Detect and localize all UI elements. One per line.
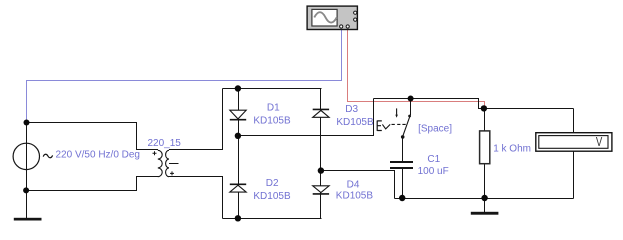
wire: bottom negative rail xyxy=(395,198,574,200)
wire: voltmeter top lead xyxy=(573,109,575,133)
diode D3 (pointing up) xyxy=(313,109,329,117)
AC source V1 220V 50Hz xyxy=(13,143,53,169)
svg-text:1 k Ohm: 1 k Ohm xyxy=(493,144,531,155)
svg-text:D3: D3 xyxy=(345,104,358,115)
wire: bridge right vertical branch xyxy=(320,89,322,219)
diode D2 (pointing up) xyxy=(230,184,246,192)
diode D1 (pointing down) xyxy=(230,110,246,120)
transformer T1 220_15 primary winding xyxy=(153,150,163,176)
wire: voltmeter bottom lead xyxy=(573,151,575,198)
node: bridge bottom-left junction xyxy=(235,215,241,221)
svg-text:C1: C1 xyxy=(427,154,440,165)
node: resistor top junction xyxy=(481,105,487,111)
svg-text:KD105B: KD105B xyxy=(253,191,291,202)
resistor R1 1 kOhm xyxy=(480,131,490,164)
node: bridge mid-right (negative output) junction xyxy=(318,167,324,173)
node: bridge mid-left (positive output) junction xyxy=(235,133,241,139)
wire: transformer secondary bottom to bridge bottom rail xyxy=(169,177,223,219)
wire: switch bottom to capacitor C1 xyxy=(402,138,404,161)
wire: transformer secondary top to bridge top rail xyxy=(169,89,223,150)
svg-text:D1: D1 xyxy=(267,102,280,113)
svg-text:[Space]: [Space] xyxy=(418,124,452,135)
transformer T1 secondary winding with center tap xyxy=(166,150,179,176)
svg-text:V: V xyxy=(596,136,603,150)
node: switch top rail junction xyxy=(408,96,414,102)
ground at load xyxy=(471,199,499,215)
wire: bridge top rail xyxy=(223,88,322,90)
wire: bridge bottom rail xyxy=(223,218,322,220)
wire: vertical through source xyxy=(26,123,28,191)
wire: blue oscilloscope channel A from scope to source top xyxy=(27,30,342,123)
wire: positive output from bridge midpoint to top rail xyxy=(239,99,374,136)
node: source top junction xyxy=(24,120,30,126)
wire: capacitor C1 bottom to ground rail xyxy=(402,168,404,198)
wire: negative output from bridge midpoint down to bottom rail xyxy=(321,171,395,199)
diode D4 (pointing down) xyxy=(313,186,329,194)
ground at source xyxy=(14,191,42,221)
wire: source top to transformer primary top xyxy=(27,123,158,150)
wire: bridge left vertical branch xyxy=(238,89,240,219)
voltmeter U1 xyxy=(536,133,612,152)
switch S1 (space key) xyxy=(377,108,411,138)
svg-text:KD105B: KD105B xyxy=(253,115,291,126)
capacitor C1 xyxy=(390,161,413,169)
wire: positive rail to resistor node xyxy=(374,99,574,109)
svg-text:100 uF: 100 uF xyxy=(418,166,449,177)
node: capacitor bottom rail junction xyxy=(399,195,405,201)
node: source bottom junction xyxy=(23,187,29,193)
svg-text:220 V/50 Hz/0 Deg: 220 V/50 Hz/0 Deg xyxy=(56,150,141,161)
wire: resistor top lead xyxy=(484,109,486,131)
wire: resistor bottom lead xyxy=(484,164,486,199)
wire: switch top stub xyxy=(410,99,412,116)
svg-text:D4: D4 xyxy=(347,179,360,190)
node: bridge top-left junction xyxy=(235,85,241,91)
svg-text:D2: D2 xyxy=(266,178,279,189)
oscilloscope XSC1 xyxy=(307,6,357,29)
wire: transformer primary bottom to source bottom xyxy=(26,177,158,191)
wire: red oscilloscope channel B from scope to load node xyxy=(348,30,485,109)
node: resistor bottom rail junction xyxy=(481,195,487,201)
svg-text:KD105B: KD105B xyxy=(336,117,374,128)
svg-text:220_15: 220_15 xyxy=(148,138,182,149)
svg-text:KD105B: KD105B xyxy=(336,191,374,202)
